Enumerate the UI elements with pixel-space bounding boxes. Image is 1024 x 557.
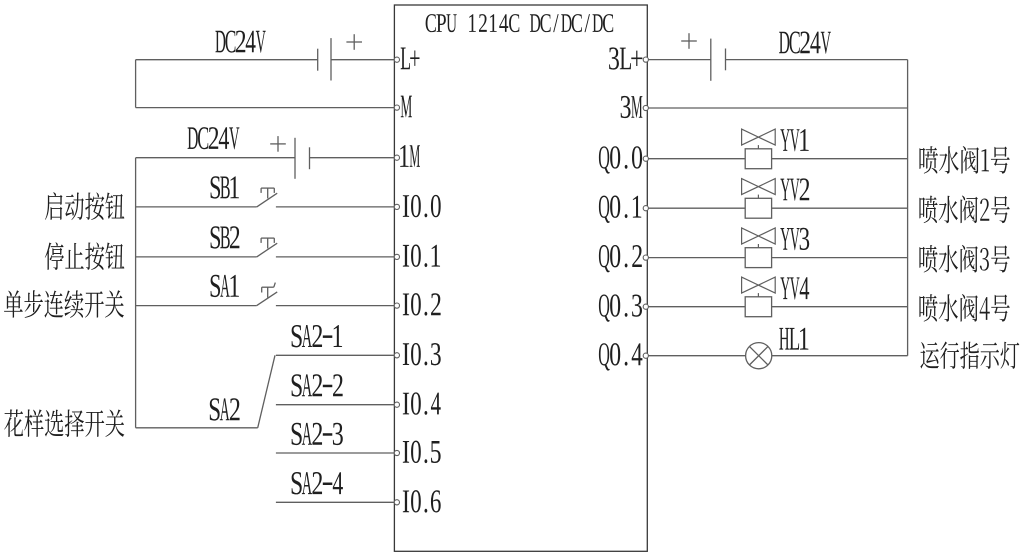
- label SB2: [211, 226, 240, 248]
- wire solenoid valve YV2 coil to right bus: [772, 207, 908, 209]
- wire battery G1 to terminal L+: [331, 59, 394, 61]
- pin label 3M: [621, 96, 643, 118]
- battery G2 plus polarity mark: [270, 143, 286, 145]
- wire SA2-2 to terminal I0.4: [276, 404, 395, 406]
- label 喷水阀3号: [919, 245, 1009, 273]
- label SA1: [211, 275, 239, 297]
- wire pushbutton SB2 row left segment: [136, 256, 257, 258]
- label 启动按钮: [45, 192, 124, 220]
- terminal node M: [394, 105, 399, 110]
- pin label Q0.0: [599, 146, 642, 173]
- label YV3: [780, 228, 809, 250]
- wire 3M to right bus: [647, 107, 907, 109]
- wire M from bus to terminal M: [136, 107, 395, 109]
- wire switch SA1 row right segment: [276, 305, 395, 307]
- battery G3 positive plate: [710, 39, 712, 81]
- pin label M: [401, 96, 412, 118]
- solenoid valve YV4 valve body: [742, 277, 776, 293]
- pushbutton SB1 contact blade: [257, 193, 278, 207]
- wire 1M from bus to battery G2: [136, 157, 295, 159]
- wire pushbutton SB1 row right segment: [276, 206, 395, 208]
- CPU module U1 outline: [394, 5, 647, 551]
- terminal node I0.3: [394, 353, 399, 358]
- pushbutton SB2 actuator: [261, 237, 274, 239]
- label YV4: [780, 277, 809, 299]
- battery G2 negative plate: [309, 147, 311, 169]
- label 停止按钮: [45, 242, 125, 270]
- selector SA2 wiper blade: [258, 355, 275, 428]
- wire SA2 common row: [136, 427, 258, 429]
- wire battery G2 to terminal 1M: [310, 157, 395, 159]
- solenoid valve YV1 solenoid coil: [745, 149, 771, 169]
- wire solenoid valve YV1 coil to right bus: [772, 158, 908, 160]
- battery G3 plus polarity mark: [681, 40, 697, 42]
- battery G2 positive plate: [294, 138, 296, 179]
- label DC24V supply G2: [188, 127, 240, 149]
- label 喷水阀2号: [919, 195, 1009, 223]
- wire terminal to solenoid valve YV4 coil: [647, 306, 745, 308]
- switch SA1 contact blade: [257, 292, 278, 306]
- terminal node I0.5: [394, 450, 399, 455]
- switch SA1 actuator: [262, 286, 274, 288]
- terminal node 1M: [394, 155, 399, 160]
- terminal node I0.1: [394, 254, 399, 259]
- wire pushbutton SB1 row left segment: [136, 206, 257, 208]
- pin label Q0.3: [599, 294, 642, 321]
- label 喷水阀1号: [919, 146, 1009, 174]
- wire SA2-4 to terminal I0.6: [276, 501, 395, 503]
- pushbutton SB2 contact blade: [257, 243, 278, 257]
- wire left supply vertical: [135, 60, 137, 108]
- label SA2-3: [292, 423, 343, 445]
- wire solenoid valve YV3 coil to right bus: [772, 257, 908, 259]
- wire L+ horizontal from bus to battery G1: [136, 59, 318, 61]
- terminal node I0.4: [394, 402, 399, 407]
- pin label L+: [401, 47, 420, 69]
- terminal node Q0.1: [643, 206, 648, 211]
- wire SA2-3 to terminal I0.5: [276, 452, 395, 454]
- terminal node I0.2: [394, 303, 399, 308]
- terminal node Q0.0: [643, 156, 648, 161]
- solenoid valve YV3 valve body: [742, 228, 776, 244]
- pin label I0.6: [403, 490, 441, 513]
- pin label I0.3: [403, 343, 441, 366]
- indicator lamp HL1: [746, 343, 772, 369]
- pushbutton SB1 actuator: [261, 187, 274, 189]
- wire battery G3 to right bus: [726, 59, 908, 61]
- wire switch SA1 row left segment: [136, 305, 257, 307]
- pin label I0.0: [403, 195, 441, 218]
- battery G3 negative plate: [725, 49, 727, 71]
- battery G1 plus polarity mark: [346, 41, 362, 43]
- label 运行指示灯: [920, 341, 1019, 369]
- wire terminal to solenoid valve YV1 coil: [647, 158, 745, 160]
- solenoid valve YV2 valve body: [742, 179, 776, 195]
- wire solenoid valve YV4 coil to right bus: [772, 306, 908, 308]
- label 单步连续开关: [4, 290, 124, 318]
- pin label Q0.4: [599, 343, 642, 370]
- label SA2-4: [292, 472, 343, 494]
- terminal node I0.6: [394, 500, 399, 505]
- pin label Q0.1: [599, 196, 641, 223]
- label 喷水阀4号: [919, 294, 1009, 322]
- label 花样选择开关: [4, 409, 124, 437]
- label YV2: [780, 178, 809, 200]
- wire terminal Q0.4 to lamp HL1: [647, 355, 745, 357]
- solenoid valve YV3 solenoid coil: [745, 248, 771, 268]
- terminal node 3L+: [643, 57, 648, 62]
- wire left input bus vertical: [135, 158, 137, 428]
- terminal node I0.0: [394, 204, 399, 209]
- label HL1: [779, 328, 808, 350]
- terminal node Q0.2: [643, 255, 648, 260]
- terminal node Q0.4: [643, 353, 648, 358]
- solenoid valve YV1 valve body: [742, 129, 776, 145]
- battery G1 negative plate: [317, 49, 319, 71]
- label DC24V supply G1: [215, 31, 265, 53]
- label SB1: [211, 176, 239, 198]
- label SA2-1: [292, 325, 342, 347]
- terminal node Q0.3: [643, 304, 648, 309]
- pin label 3L+: [609, 47, 642, 69]
- wire terminal 3L+ to battery G3: [647, 59, 711, 61]
- terminal node L+: [394, 57, 399, 62]
- solenoid valve YV2 solenoid coil: [745, 198, 771, 218]
- solenoid valve YV4 solenoid coil: [745, 297, 771, 317]
- wire pushbutton SB2 row right segment: [276, 256, 395, 258]
- label YV1: [780, 129, 808, 151]
- pin label I0.1: [403, 245, 440, 268]
- wire lamp HL1 to right bus: [772, 355, 908, 357]
- pin label Q0.2: [599, 245, 642, 272]
- wire right output bus vertical: [907, 60, 909, 356]
- wire terminal to solenoid valve YV2 coil: [647, 207, 745, 209]
- pin label I0.4: [403, 392, 441, 415]
- pin label I0.5: [403, 441, 441, 464]
- wire terminal to solenoid valve YV3 coil: [647, 257, 745, 259]
- label CPU 1214C DC/DC/DC: [426, 14, 614, 32]
- battery G1 positive plate: [330, 38, 332, 80]
- label SA2-2: [292, 374, 343, 396]
- terminal node 3M: [643, 105, 648, 110]
- wire SA2-1 to terminal I0.3: [276, 354, 395, 356]
- pin label 1M: [400, 145, 420, 167]
- pin label I0.2: [403, 293, 441, 316]
- label DC24V supply G3: [779, 31, 831, 53]
- label SA2: [210, 398, 240, 420]
